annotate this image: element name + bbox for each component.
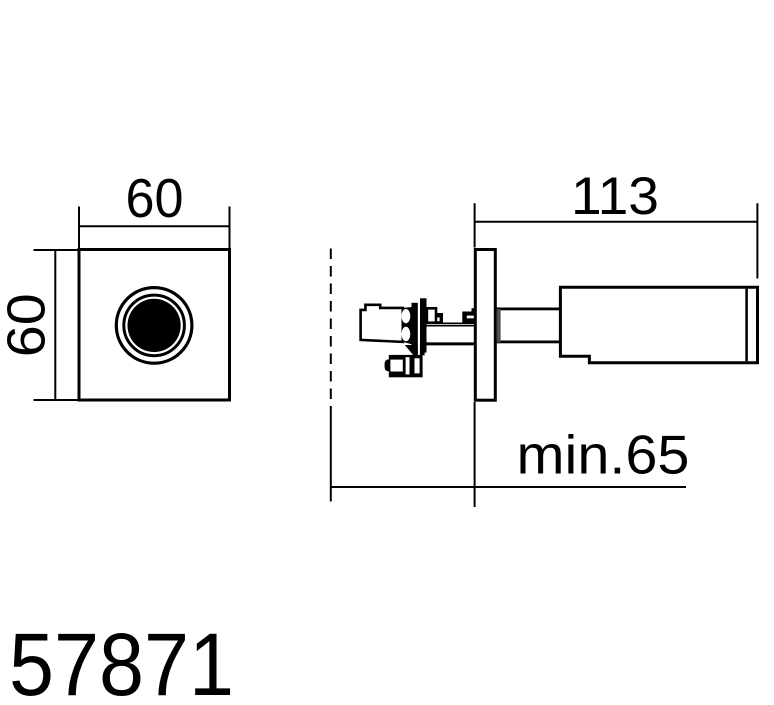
gasket strip: [497, 309, 501, 342]
wall plate (side view): [475, 250, 495, 401]
valve cone section: [403, 307, 412, 344]
nut step block: [436, 313, 443, 323]
wall bracket tip: [472, 308, 475, 311]
front view: square escutcheon plate: [79, 250, 230, 401]
threaded rod top edge: [427, 325, 475, 327]
dimension min.65: left witness line: [330, 409, 332, 502]
dimension 113: left witness line: [474, 203, 476, 247]
svg-text:min.65: min.65: [517, 424, 690, 486]
svg-text:113: 113: [571, 167, 659, 226]
svg-text:57871: 57871: [9, 614, 234, 705]
flange lower bridge: [405, 345, 425, 355]
spout body: [560, 287, 757, 362]
svg-text:60: 60: [0, 293, 56, 357]
dimension 60 vertical: dim line: [54, 250, 56, 400]
dimension 60 horizontal: left witness line: [78, 207, 80, 251]
sensor window (filled): [128, 299, 181, 352]
sensor outer ring: [116, 288, 192, 364]
dimension 60 vertical: bottom witness line: [34, 399, 80, 401]
sensor middle ring: [124, 295, 185, 356]
nut step notch: [437, 318, 439, 322]
wall bracket slit: [467, 316, 474, 319]
wall reference dashed line: [330, 249, 332, 410]
cable connector body: [385, 359, 393, 371]
valve cone opening upper: [402, 309, 411, 323]
flange highlight line: [418, 298, 420, 355]
cable connector main: [389, 355, 423, 377]
supply pipe (wall to spout): [495, 309, 560, 342]
mounting flange right bar: [420, 298, 427, 352]
dimension 60 horizontal: right witness line: [229, 207, 231, 251]
mounting rail line: [436, 322, 474, 324]
dimension 60 vertical: top witness line: [34, 249, 80, 251]
hex nut: [427, 308, 436, 322]
threaded rod: [427, 325, 475, 345]
svg-text:60: 60: [126, 167, 184, 229]
connector right window: [415, 358, 420, 373]
dimension 113: dim line: [475, 221, 758, 223]
dimension min.65: right witness line: [474, 402, 476, 507]
threaded rod bottom edge: [427, 342, 475, 345]
dimension 113: right witness line: [756, 203, 758, 278]
spout end cap line: [745, 289, 748, 361]
dimension min.65: dim line: [331, 486, 686, 488]
connector window: [390, 360, 402, 372]
dimension 60 horizontal: dim line: [79, 225, 230, 227]
wall bracket block: [462, 312, 474, 323]
connector white band: [406, 357, 410, 374]
solenoid valve body (side view, behind wall): [361, 305, 403, 342]
mounting flange left bar: [412, 303, 418, 351]
valve cone opening lower: [402, 327, 411, 342]
